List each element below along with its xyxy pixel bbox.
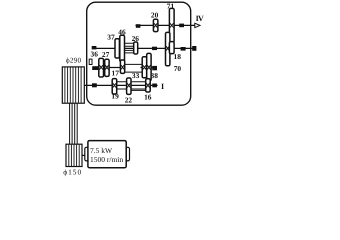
cross mark gear 16 [146,83,149,87]
coupling square shaft III output [192,46,196,51]
svg-text:27: 27 [102,50,110,59]
bearing shaft II right [152,66,157,70]
gear 19 [112,79,117,94]
gear 37 [115,39,119,58]
svg-text:18: 18 [174,52,182,61]
svg-text:19: 19 [111,92,119,101]
svg-text:22: 22 [125,95,133,104]
svg-text:ϕ150: ϕ150 [63,168,82,177]
cross mark gear 70 [166,46,169,50]
gear 17 [120,60,124,73]
svg-text:7.5 kW: 7.5 kW [90,146,113,155]
sleeve shaft II [125,64,143,72]
gear 20 [153,19,158,31]
svg-text:37: 37 [107,33,115,42]
pulley 290 grooves [65,68,81,103]
svg-text:46: 46 [118,27,126,36]
gear 36 [99,58,104,77]
bearing shaft I right [152,84,157,88]
shaft III [92,47,193,49]
clutch spline shaft III [125,43,134,53]
gear 18 [169,42,174,54]
wall bracket [89,59,92,64]
cross mark gear 33 [143,65,146,69]
svg-text:20: 20 [151,10,159,19]
cross mark gear 36 [99,65,103,69]
svg-text:ϕ290: ϕ290 [66,56,82,64]
cross mark gear 27 [105,65,108,69]
motor cap right [126,147,129,161]
motor shaft [82,154,86,156]
gear 38 [147,53,151,80]
svg-text:17: 17 [112,68,120,77]
bearing shaft IV right [179,24,184,28]
svg-text:26: 26 [132,34,140,43]
belt [70,103,78,144]
svg-text:70: 70 [174,64,182,73]
cross mark gear 17 [121,65,124,69]
bearing shaft III left [92,46,97,49]
cross mark gear 20 [154,23,157,27]
arrow shaft IV output [195,23,200,27]
shaft II right segment [141,67,158,69]
gearbox housing [87,2,191,105]
bearing shaft III middle [152,47,157,50]
gear 46 [120,35,125,61]
sleeve shaft I [117,82,146,91]
cross mark gear 19 [113,83,116,87]
gear 26 [134,42,138,54]
gear 27 [105,59,109,76]
svg-text:36: 36 [91,50,99,59]
motor cap left [85,147,88,161]
bearing shaft I left [92,83,97,87]
gear 22 [127,78,131,94]
shaft I [84,84,158,86]
gear 16 [146,79,151,92]
pulley 150 [66,144,82,166]
cross mark gear 22 [127,83,130,87]
gear 70 [166,32,170,65]
pulley 150 grooves [69,145,79,166]
svg-text:IV: IV [196,14,204,23]
motor body [88,141,126,168]
pulley 290 [62,67,84,103]
cross mark gear 38 [147,65,150,69]
svg-text:33: 33 [132,71,140,80]
svg-text:I: I [161,82,164,91]
cross mark gear 71 [170,23,174,27]
shaft IV [136,24,195,26]
shaft II left segment [94,67,126,69]
svg-text:1500 r/min: 1500 r/min [90,155,123,164]
svg-text:16: 16 [144,93,152,102]
gear 33 [142,57,147,78]
bearing shaft III right [181,47,186,51]
bearing shaft II left [92,66,98,70]
bearing shaft IV left [136,24,141,28]
svg-text:38: 38 [151,71,159,80]
svg-text:71: 71 [167,2,175,11]
gear 71 [169,8,174,42]
